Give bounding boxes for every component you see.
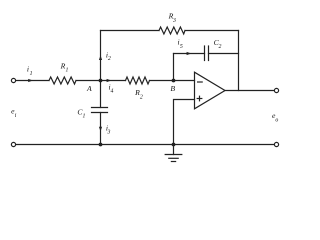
svg-text:4: 4 [111, 88, 114, 95]
resistor R2 [126, 77, 150, 84]
wire node A down to C1 [100, 81, 102, 108]
wire R1 to R2 through node A [76, 80, 126, 82]
svg-text:i: i [15, 113, 17, 119]
bottom rail wire [16, 144, 275, 146]
current arrow i1 [28, 79, 33, 82]
wire node A up to top feedback rail [100, 31, 102, 81]
wire non-inverting input [174, 100, 195, 145]
wire C1 down to ground rail [100, 113, 102, 145]
svg-text:5: 5 [180, 44, 183, 50]
top feedback wire right segment [185, 30, 239, 32]
svg-text:1: 1 [30, 71, 33, 77]
svg-text:A: A [86, 84, 92, 93]
label e_o [272, 111, 278, 123]
label e_i [11, 107, 17, 119]
current arrow i3 [99, 127, 102, 132]
label C1 [77, 108, 85, 120]
svg-text:2: 2 [140, 95, 143, 101]
wire op-amp output to output terminal [225, 90, 274, 92]
capacitor C1 [92, 108, 108, 113]
wire R2 to op-amp inverting input through node B [150, 80, 195, 82]
label R1 [60, 61, 69, 73]
current arrow i2 [99, 55, 102, 60]
bottom left terminal circle [11, 142, 15, 146]
label i3 [106, 123, 111, 135]
wire node B up to C2 branch [173, 54, 175, 81]
svg-text:2: 2 [218, 44, 221, 50]
label i4 [109, 83, 114, 95]
resistor R1 [49, 77, 76, 84]
resistor R3 [159, 27, 185, 34]
C2 branch wire left of capacitor [174, 53, 205, 55]
svg-text:1: 1 [82, 113, 85, 119]
svg-text:1: 1 [66, 68, 69, 74]
svg-text:3: 3 [172, 18, 176, 24]
svg-text:3: 3 [107, 130, 111, 136]
node B junction dot [172, 79, 176, 83]
op-amp U1 [195, 72, 226, 109]
svg-text:o: o [275, 117, 278, 123]
current arrow i4 [107, 79, 112, 82]
wire input terminal to R1 [16, 80, 49, 82]
rail junction dot below C1 [99, 143, 103, 147]
rail junction dot at ground [172, 143, 176, 147]
label i5 [178, 38, 183, 51]
bottom right terminal circle [274, 142, 278, 146]
label i1 [27, 65, 33, 77]
ground [165, 145, 182, 162]
top feedback wire left segment [101, 30, 160, 32]
node A junction dot [99, 79, 103, 83]
output terminal circle [274, 88, 278, 92]
svg-text:2: 2 [108, 56, 111, 62]
label i2 [106, 50, 111, 62]
svg-text:B: B [170, 84, 175, 93]
current arrow i5 [187, 52, 192, 55]
capacitor C2 [205, 46, 209, 61]
input terminal circle [11, 78, 15, 82]
C2 branch wire right of capacitor [209, 53, 239, 55]
label R2 [134, 88, 143, 101]
right vertical feedback wire down to output [238, 31, 240, 91]
label R3 [168, 12, 176, 24]
label C2 [214, 38, 222, 50]
